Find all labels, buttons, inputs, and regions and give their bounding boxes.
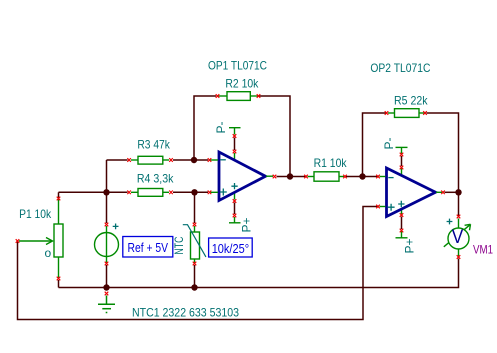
thermistor NTC diagonal [183,225,206,257]
svg-text:VM1: VM1 [473,243,493,257]
svg-text:o: o [45,246,52,260]
resistor R3 [131,156,169,164]
svg-text:P+: P+ [240,217,254,232]
svg-text:P+: P+ [403,238,417,253]
voltmeter plus sign [447,219,453,225]
op-amp OP2 minus sign [388,177,393,179]
svg-text:NTC1 2322 633 53103: NTC1 2322 633 53103 [132,306,239,320]
op-amp OP1 input leads [211,160,274,192]
op-amp OP2 [387,168,436,217]
wire R3 right to OP1 - input [173,159,208,161]
wire OP2 P- stem [401,156,403,166]
wire feedback-right OP1 [260,96,291,177]
value box Ref + 5V [123,237,173,258]
wire NTC bottom [194,265,196,288]
op-amp OP1 plus sign (power) [231,183,237,189]
voltmeter VM1 [444,219,471,257]
svg-text:R4 3,3k: R4 3,3k [137,171,174,185]
svg-text:P1 10k: P1 10k [19,207,52,221]
svg-text:P-: P- [214,121,228,133]
resistor R2 [219,92,259,101]
wire P1 top [58,192,60,197]
wire feedback-right OP2 [427,113,459,192]
resistor R5 [388,109,425,118]
svg-text:OP2 TL071C: OP2 TL071C [370,61,430,75]
ground [98,296,115,313]
wire OP1 output to R1 [277,176,307,178]
wire NTC top [194,192,196,223]
wire feedback-left OP1 [194,96,216,160]
wire R3 corner down to Ref source [106,160,108,223]
wire feedback-left OP2 [363,113,387,177]
wire OP2 P+ stem [401,217,403,230]
resistor R4 [131,189,169,197]
svg-text:R2 10k: R2 10k [225,77,259,91]
wire R4 right to OP1 + input [173,191,208,193]
svg-text:R5 22k: R5 22k [394,94,428,108]
op-amp OP2 plus sign (power) [398,201,404,207]
power terminal P- of OP1 [229,128,241,160]
power terminal P+ of OP2 [396,209,408,238]
op-amp OP2 plus sign (input) [388,204,395,211]
op-amp OP1 minus sign [221,159,226,161]
voltage source plus sign [113,224,119,230]
resistor R1 [308,172,345,181]
op-amp OP1 plus sign (input) [220,189,227,196]
power terminal P- of OP2 [396,147,408,175]
value box 10k/25deg [209,238,253,257]
svg-text:NTC: NTC [172,236,186,254]
svg-text:V: V [452,227,464,248]
wire OP1 P- stem [234,138,236,151]
wire P1 bottom to ground rail [58,280,60,288]
svg-text:OP1 TL071C: OP1 TL071C [208,59,267,73]
potentiometer P1 [19,200,63,278]
op-amp OP1 [219,152,266,201]
wire OP1 P+ stem [234,203,236,215]
wire P1 wiper to bottom rail to OP2 + input [18,207,378,320]
svg-text:R3 47k: R3 47k [137,138,170,152]
svg-text:Ref + 5V: Ref + 5V [128,240,169,255]
wire Ref source bottom [106,265,108,288]
wire R1 to OP2 inverting input [346,176,378,178]
voltage source Ref [95,226,119,263]
wire R4 line left [59,191,128,193]
wire R3 left [107,159,128,161]
op-amp OP2 input leads [380,177,443,207]
svg-text:10k/25°: 10k/25° [212,241,249,256]
wire VM1 bottom to ground rail [59,259,459,288]
wire OP2 output to VM1 [445,191,459,193]
thermistor NTC [191,226,200,263]
power terminal P+ of OP1 [229,192,241,223]
svg-text:R1 10k: R1 10k [314,156,348,170]
pin marks (red crosses) [16,94,461,295]
svg-text:P-: P- [382,137,396,149]
